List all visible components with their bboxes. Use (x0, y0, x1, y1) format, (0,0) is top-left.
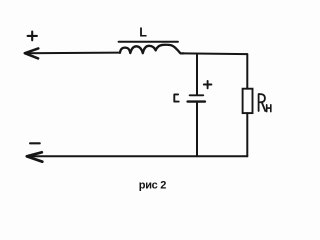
wire capacitor branch upper (196, 54, 198, 95)
capacitor C bottom plate (188, 100, 205, 102)
label Rн (259, 94, 271, 112)
svg-text:L: L (139, 25, 147, 39)
wire bottom horizontal (27, 155, 248, 157)
wire right branch lower (246, 113, 248, 156)
wire capacitor branch lower (196, 103, 198, 157)
arrow (bottom lead, pointing left) (27, 152, 43, 161)
overbar above inductor label (119, 41, 178, 43)
inductor L1 coil (120, 45, 184, 54)
terminal + (positive input) (28, 32, 37, 41)
label C (174, 94, 178, 101)
resistor Rн body (243, 89, 253, 113)
capacitor C top plate (190, 94, 204, 96)
arrow (top input lead, pointing left) (25, 48, 39, 58)
svg-text:рис 2: рис 2 (139, 179, 166, 191)
polarity + of capacitor (204, 81, 212, 88)
terminal − (negative input) (30, 142, 40, 144)
wire top horizontal left segment (25, 52, 120, 55)
wire right branch upper (246, 54, 248, 89)
wire top horizontal right segment (184, 52, 248, 55)
